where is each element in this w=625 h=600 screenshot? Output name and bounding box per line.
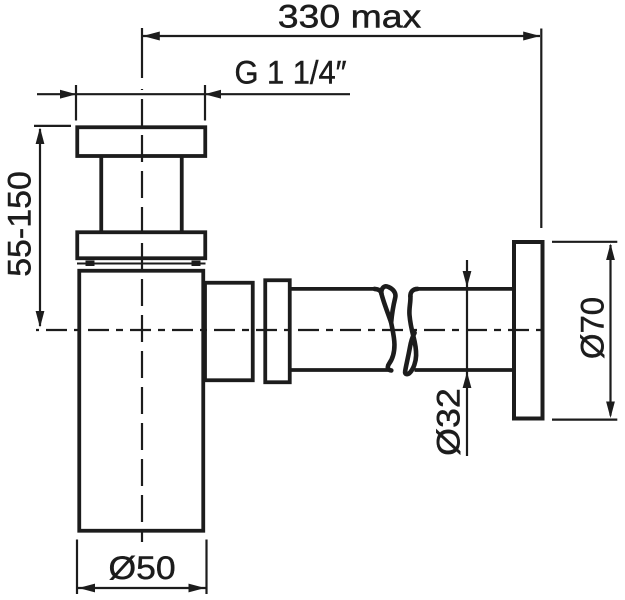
- svg-text:Ø32: Ø32: [431, 388, 467, 456]
- svg-text:G 1 1/4″: G 1 1/4″: [234, 55, 346, 91]
- svg-text:55-150: 55-150: [1, 171, 37, 277]
- svg-text:330 max: 330 max: [278, 0, 422, 35]
- svg-text:Ø70: Ø70: [575, 297, 610, 359]
- svg-text:Ø50: Ø50: [108, 551, 175, 587]
